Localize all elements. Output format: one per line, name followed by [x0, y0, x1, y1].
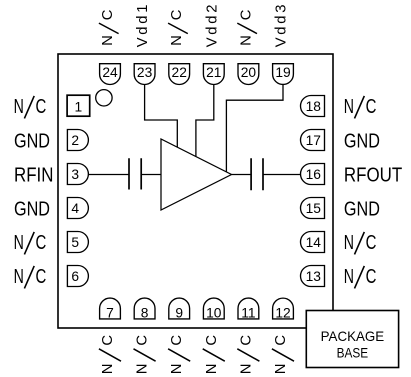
wire C1 to amplifier input — [141, 174, 161, 176]
svg-text:N: N — [238, 364, 254, 375]
svg-text:C: C — [100, 335, 116, 346]
svg-text:N: N — [135, 364, 151, 375]
pin 10 — [203, 298, 224, 320]
svg-text:N: N — [238, 35, 254, 46]
svg-text:Vdd1: Vdd1 — [135, 5, 151, 48]
svg-text:Vdd3: Vdd3 — [274, 5, 290, 48]
svg-text:10: 10 — [206, 305, 222, 320]
svg-text:11: 11 — [241, 305, 255, 320]
svg-text:22: 22 — [172, 65, 187, 80]
svg-text:C: C — [238, 9, 254, 20]
label N/C (pin 1) — [14, 96, 47, 119]
package outline — [58, 54, 333, 328]
svg-text:N: N — [169, 364, 185, 375]
pin-1 indicator dot — [96, 90, 112, 106]
label N/C (pin 20) — [237, 9, 257, 46]
label N/C (pin 24) — [99, 9, 119, 46]
svg-text:PACKAGE: PACKAGE — [321, 329, 385, 344]
svg-text:C: C — [366, 96, 377, 118]
label N/C (pin 13) — [344, 266, 377, 289]
pin 24 — [100, 64, 121, 85]
svg-text:C: C — [36, 96, 47, 118]
svg-text:C: C — [36, 266, 47, 288]
label N/C (pin 7) — [99, 335, 121, 375]
svg-text:C: C — [36, 232, 47, 254]
pin 12 — [273, 298, 294, 320]
svg-text:GND: GND — [14, 130, 50, 152]
pin 21 — [203, 64, 224, 85]
svg-text:3: 3 — [71, 167, 79, 182]
label N/C (pin 22) — [168, 9, 188, 46]
svg-text:RFIN: RFIN — [14, 164, 53, 186]
label N/C (pin 18) — [344, 96, 377, 119]
svg-text:9: 9 — [175, 305, 183, 320]
svg-text:18: 18 — [306, 99, 322, 114]
pin 23 — [134, 64, 155, 85]
pin 15 — [301, 198, 325, 219]
svg-text:C: C — [238, 335, 254, 346]
svg-text:4: 4 — [71, 201, 79, 216]
svg-text:N: N — [204, 364, 220, 375]
svg-text:C: C — [169, 9, 185, 20]
pin 18 — [301, 96, 325, 117]
op-amp U1 (amplifier) — [161, 139, 232, 210]
svg-text:20: 20 — [241, 65, 257, 80]
pin 13 — [301, 266, 325, 287]
svg-text:N: N — [273, 364, 289, 375]
pin 17 — [301, 130, 325, 151]
wire Vdd3 (pin 19) to amplifier output — [226, 84, 283, 172]
svg-text:GND: GND — [344, 198, 380, 220]
svg-text:N: N — [14, 266, 24, 288]
svg-text:17: 17 — [306, 133, 321, 148]
pin 8 — [134, 298, 155, 320]
svg-text:C: C — [135, 335, 151, 346]
svg-text:16: 16 — [306, 167, 322, 182]
svg-text:C: C — [100, 9, 116, 20]
pin 14 — [301, 232, 325, 253]
label N/C (pin 10) — [203, 335, 225, 375]
wire pin3 to C1 — [88, 174, 129, 176]
svg-text:RFOUT: RFOUT — [344, 164, 402, 186]
svg-text:C: C — [169, 335, 185, 346]
svg-text:24: 24 — [102, 65, 118, 80]
svg-text:C: C — [273, 335, 289, 346]
capacitor C1 (input DC block) — [129, 158, 141, 189]
label N/C (pin 6) — [14, 266, 47, 289]
label N/C (pin 5) — [14, 232, 47, 255]
svg-text:5: 5 — [71, 235, 79, 250]
pin 2 — [67, 130, 88, 151]
svg-text:BASE: BASE — [337, 345, 369, 360]
svg-text:N: N — [344, 232, 354, 254]
pin 16 — [301, 164, 325, 185]
svg-text:23: 23 — [137, 65, 153, 80]
svg-text:7: 7 — [106, 305, 114, 320]
svg-text:N: N — [14, 96, 24, 118]
pin 22 — [169, 64, 190, 85]
svg-text:13: 13 — [306, 269, 322, 284]
label N/C (pin 9) — [168, 335, 190, 375]
svg-text:21: 21 — [206, 65, 221, 80]
svg-text:Vdd2: Vdd2 — [204, 5, 220, 48]
svg-text:N: N — [169, 35, 185, 46]
svg-text:N: N — [14, 232, 24, 254]
label N/C (pin 11) — [237, 335, 259, 375]
svg-text:C: C — [204, 335, 220, 346]
svg-text:N: N — [344, 96, 354, 118]
svg-text:14: 14 — [306, 235, 322, 250]
package base box — [306, 311, 398, 368]
wire Vdd2 (pin 21) to amplifier — [196, 84, 214, 157]
capacitor C2 (output DC block) — [251, 158, 263, 190]
svg-text:GND: GND — [14, 198, 50, 220]
svg-text:15: 15 — [306, 201, 322, 216]
pin 7 — [100, 298, 121, 320]
svg-text:8: 8 — [141, 305, 149, 320]
svg-text:N: N — [100, 364, 116, 375]
pin 11 — [238, 298, 259, 320]
pin 9 — [169, 298, 190, 320]
svg-text:GND: GND — [344, 130, 380, 152]
pin 1 — [67, 95, 90, 116]
svg-text:C: C — [366, 232, 377, 254]
svg-text:N: N — [100, 35, 116, 46]
wire Vdd1 (pin 23) to amplifier — [145, 84, 178, 147]
svg-text:6: 6 — [71, 269, 79, 284]
pin 4 — [67, 198, 88, 219]
pin 19 — [273, 64, 294, 85]
wire amplifier output to C2 — [232, 174, 252, 176]
svg-text:N: N — [344, 266, 354, 288]
label N/C (pin 8) — [134, 335, 156, 375]
pin 6 — [67, 266, 88, 287]
wire C2 to pin 16 — [263, 174, 301, 176]
svg-text:19: 19 — [275, 65, 291, 80]
pin 3 — [67, 164, 88, 185]
pin 20 — [238, 64, 259, 85]
svg-text:12: 12 — [275, 305, 290, 320]
svg-text:2: 2 — [71, 133, 79, 148]
svg-text:C: C — [366, 266, 377, 288]
pin 5 — [67, 232, 88, 253]
label N/C (pin 12) — [272, 335, 294, 375]
label N/C (pin 14) — [344, 232, 377, 255]
svg-text:1: 1 — [75, 99, 83, 114]
